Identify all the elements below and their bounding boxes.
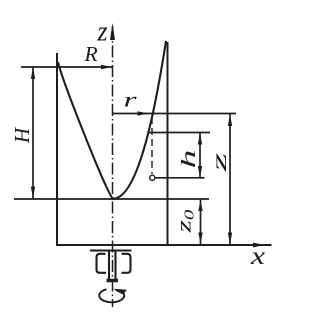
svg-text:H: H (10, 126, 34, 144)
svg-text:z: z (208, 153, 230, 173)
svg-text:z: z (96, 15, 107, 46)
svg-text:r: r (123, 89, 136, 112)
svg-text:z0: z0 (172, 210, 197, 234)
svg-text:R: R (83, 42, 97, 66)
svg-text:x: x (250, 243, 265, 270)
svg-text:h: h (177, 150, 199, 169)
